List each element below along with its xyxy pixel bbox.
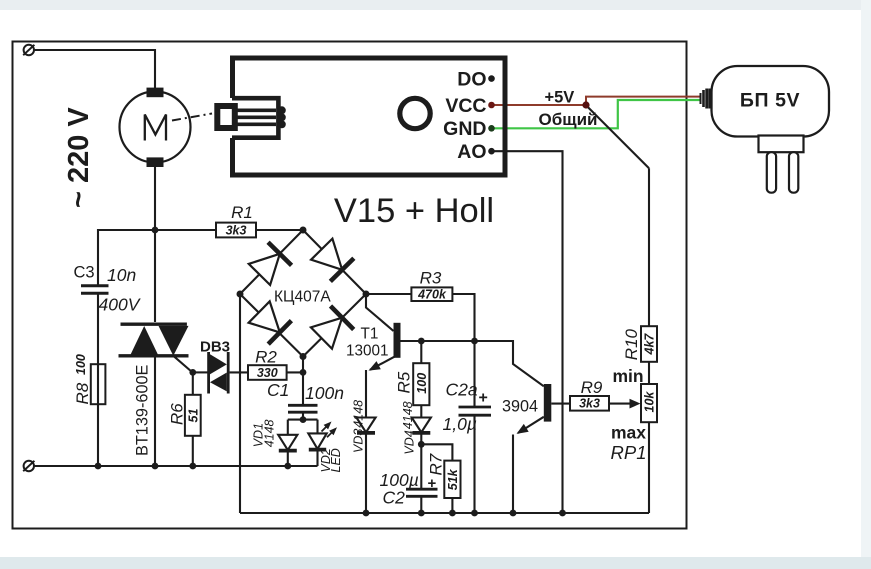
notch erase <box>227 98 238 138</box>
svg-text:AO: AO <box>457 141 486 163</box>
svg-text:3904: 3904 <box>502 398 538 416</box>
node neutral rail x=192.8 <box>189 463 196 470</box>
wire: T1 base line <box>401 341 544 386</box>
bottom grey strip <box>0 557 871 569</box>
pin VCC <box>445 95 494 117</box>
svg-text:VD3: VD3 <box>352 429 366 453</box>
wire: R3 to C2a column <box>452 294 474 341</box>
motor M1 <box>120 88 191 167</box>
node bottom rail x=562.5 <box>559 510 566 517</box>
svg-text:4k7: 4k7 <box>643 333 657 356</box>
svg-text:100: 100 <box>74 354 88 375</box>
wire: R7 to bottom rail <box>451 498 453 513</box>
resistor R9 <box>570 378 609 411</box>
node: R2/C1 junction <box>300 369 307 376</box>
hall sensor leads <box>237 110 276 124</box>
potentiometer RP1 <box>641 384 657 422</box>
Q2 emitter arrow <box>517 424 529 434</box>
svg-text:RP1: RP1 <box>611 442 647 463</box>
wire: bridge right to T1 collector <box>366 294 394 331</box>
bridge rectifier KTs407A outline <box>240 230 366 357</box>
svg-text:51k: 51k <box>446 468 460 490</box>
svg-text:10k: 10k <box>643 391 657 413</box>
resistor R7 <box>427 453 461 498</box>
wire: gate node to DB3 <box>193 371 208 373</box>
svg-text:V15 + Holl: V15 + Holl <box>334 192 494 230</box>
module mounting hole <box>400 98 430 128</box>
wire: C1 to VD1/VD2 split <box>302 412 304 419</box>
resistor R3 <box>411 269 452 302</box>
transistor T1 base bar <box>394 323 401 358</box>
svg-text:LED: LED <box>329 448 343 472</box>
hall sensor head <box>217 106 235 128</box>
node below C1 <box>300 416 307 423</box>
wire: R6 to neutral rail <box>192 436 194 466</box>
node dot motor column <box>152 227 159 234</box>
wire: motor to node at R1 rail <box>154 167 156 230</box>
wire: split bar <box>288 419 318 421</box>
node VD4 bottom <box>418 441 425 448</box>
svg-text:+: + <box>428 475 437 492</box>
wire: T1 emitter <box>370 355 397 370</box>
pin AO <box>457 141 495 163</box>
node C2a top <box>471 338 478 345</box>
node bottom rail x=421.3 <box>418 510 425 517</box>
wire: diagonal column to R10 <box>648 168 650 326</box>
resistor R10 <box>622 326 657 362</box>
svg-text:GND: GND <box>443 118 486 140</box>
svg-text:Общий: Общий <box>539 110 598 129</box>
svg-text:400V: 400V <box>99 295 142 315</box>
capacitor C3 <box>74 264 142 315</box>
capacitor C2 electrolytic <box>380 444 438 513</box>
node bridge vertex (240,294) <box>237 291 244 298</box>
bridge diode VD-BR <box>310 306 354 350</box>
capacitor C2a <box>443 341 492 513</box>
svg-text:DB3: DB3 <box>200 339 230 356</box>
bridge diode VD-TL <box>248 242 292 286</box>
dashed link motor to hall sensor <box>172 114 212 121</box>
wire +5V red: VCC pin to junction and to PSU <box>491 104 586 106</box>
wire: +5V junction diagonal to R10 column <box>587 106 649 168</box>
diode VD4 4148 <box>401 401 431 454</box>
svg-text:min: min <box>613 366 644 386</box>
svg-text:R2: R2 <box>255 348 277 367</box>
schematic frame border <box>13 42 687 529</box>
svg-text:+: + <box>479 390 488 407</box>
top grey strip <box>0 0 871 10</box>
svg-text:VD4: VD4 <box>403 430 417 454</box>
svg-text:VCC: VCC <box>445 95 486 117</box>
wire: R2 to C1 column <box>287 371 303 373</box>
node bridge vertex (366,294) <box>363 291 370 298</box>
transistor Q2 3904 base bar <box>544 384 552 422</box>
svg-text:4148: 4148 <box>263 419 277 447</box>
svg-text:C3: C3 <box>74 264 95 282</box>
svg-text:R5: R5 <box>395 371 414 393</box>
svg-text:R8: R8 <box>73 382 92 404</box>
wire: triac to neutral rail <box>154 356 156 466</box>
wire: R10 to RP1 <box>648 362 650 384</box>
svg-text:100n: 100n <box>305 383 344 403</box>
svg-text:10n: 10n <box>107 265 136 285</box>
svg-text:330: 330 <box>257 366 278 380</box>
wire: Q2 base to R9 <box>551 403 570 405</box>
svg-text:13001: 13001 <box>346 343 389 360</box>
node R5 top <box>418 338 425 345</box>
node bottom rail x=513 <box>510 510 517 517</box>
wire: AO pin down to bottom rail <box>491 151 563 513</box>
sensor connector notch <box>232 98 278 138</box>
svg-text:470k: 470k <box>417 288 447 302</box>
svg-text:R9: R9 <box>581 378 603 397</box>
wire: Q2 emitter to rail <box>512 435 514 514</box>
wire: bridge bottom to C1 <box>302 357 304 405</box>
pin GND <box>443 118 495 140</box>
wire: bridge left vertex to bottom rail <box>239 294 241 513</box>
node bridge vertex (303,356.5) <box>300 353 307 360</box>
svg-text:R1: R1 <box>231 203 253 222</box>
wire: R9 to RP1 wiper arrow <box>609 403 632 405</box>
svg-text:~ 220 V: ~ 220 V <box>63 107 95 208</box>
wire: R1 to bridge top <box>256 229 303 231</box>
pin DO <box>457 69 495 91</box>
node neutral rail x=98 <box>95 463 102 470</box>
node bottom rail x=366 <box>363 510 370 517</box>
wire: VD4 node to R7 <box>421 444 452 460</box>
label ~220V <box>63 107 95 208</box>
svg-text:max: max <box>611 422 646 442</box>
node bridge vertex (303,230) <box>300 227 307 234</box>
triac VS1 BT139-600E <box>119 324 189 356</box>
hall module U1 white body <box>230 56 508 178</box>
svg-text:BT139-600E: BT139-600E <box>134 364 152 456</box>
capacitor C1 <box>267 380 344 412</box>
svg-text:51: 51 <box>187 409 201 423</box>
wire common green: GND pin to PSU <box>491 100 700 128</box>
svg-text:4148: 4148 <box>401 401 415 429</box>
bridge diode VD-BL <box>248 300 292 344</box>
resistor R6 <box>168 395 201 436</box>
svg-text:1,0µ: 1,0µ <box>443 414 477 434</box>
resistor R1 <box>216 203 256 238</box>
wire: top terminal to motor <box>34 50 155 88</box>
svg-text:C2: C2 <box>383 488 406 508</box>
node bottom rail x=452.4 <box>449 510 456 517</box>
node: +5V junction dot <box>582 101 589 108</box>
svg-text:R6: R6 <box>168 403 187 425</box>
svg-text:100: 100 <box>415 373 429 394</box>
wire: RP1 to bottom rail <box>648 422 650 513</box>
wire: bridge right to R3 <box>366 293 411 295</box>
svg-text:R7: R7 <box>427 453 446 475</box>
node neutral rail x=155 <box>152 463 159 470</box>
wire: neutral rail <box>34 465 317 467</box>
node: gate junction <box>189 369 196 376</box>
wire: bottom rail <box>240 512 649 514</box>
svg-text:T1: T1 <box>361 326 379 343</box>
svg-text:C1: C1 <box>267 380 289 400</box>
wire: R5 to VD4 <box>420 405 422 417</box>
input terminal top <box>23 45 34 55</box>
svg-text:DO: DO <box>457 69 486 91</box>
wire: Q2 emitter <box>518 417 544 433</box>
wire: gate node down to R6 <box>192 372 194 395</box>
right grey strip <box>861 0 871 557</box>
wire: base node to R5 <box>420 341 422 363</box>
diode VD3 4148 <box>352 370 376 513</box>
wire: DB3 to R2 <box>230 371 248 373</box>
svg-text:R3: R3 <box>420 269 442 288</box>
wire: top rail to R1 <box>98 230 216 285</box>
svg-text:3k3: 3k3 <box>579 397 600 411</box>
node neutral rail x=287.8 <box>284 463 291 470</box>
power supply BP 5V <box>712 66 830 193</box>
hall module U1 border <box>233 58 506 175</box>
wire: triac column <box>154 230 156 322</box>
svg-text:R10: R10 <box>622 328 641 360</box>
label BT139-600E <box>134 364 152 456</box>
svg-text:КЦ407А: КЦ407А <box>274 289 331 306</box>
wire: C3 down to neutral rail <box>97 293 99 466</box>
bridge diode VD-TR <box>310 238 354 282</box>
node bottom rail x=474.5 <box>471 510 478 517</box>
svg-text:3k3: 3k3 <box>226 224 247 238</box>
T1 emitter arrow <box>369 361 381 371</box>
diac DB3 <box>200 339 230 394</box>
input terminal bottom <box>23 461 34 471</box>
LED VD2 <box>308 420 343 473</box>
resistor R5 <box>395 363 430 405</box>
resistor R2 <box>248 348 287 380</box>
resistor R8 (fuse style) <box>73 354 105 404</box>
PSU jack <box>701 89 711 109</box>
svg-text:4148: 4148 <box>352 400 366 428</box>
diode VD1 4148 <box>252 419 298 466</box>
wire: triac gate <box>173 356 192 372</box>
svg-text:БП 5V: БП 5V <box>740 90 800 112</box>
svg-text:C2a: C2a <box>446 380 478 400</box>
svg-text:+5V: +5V <box>545 89 575 107</box>
